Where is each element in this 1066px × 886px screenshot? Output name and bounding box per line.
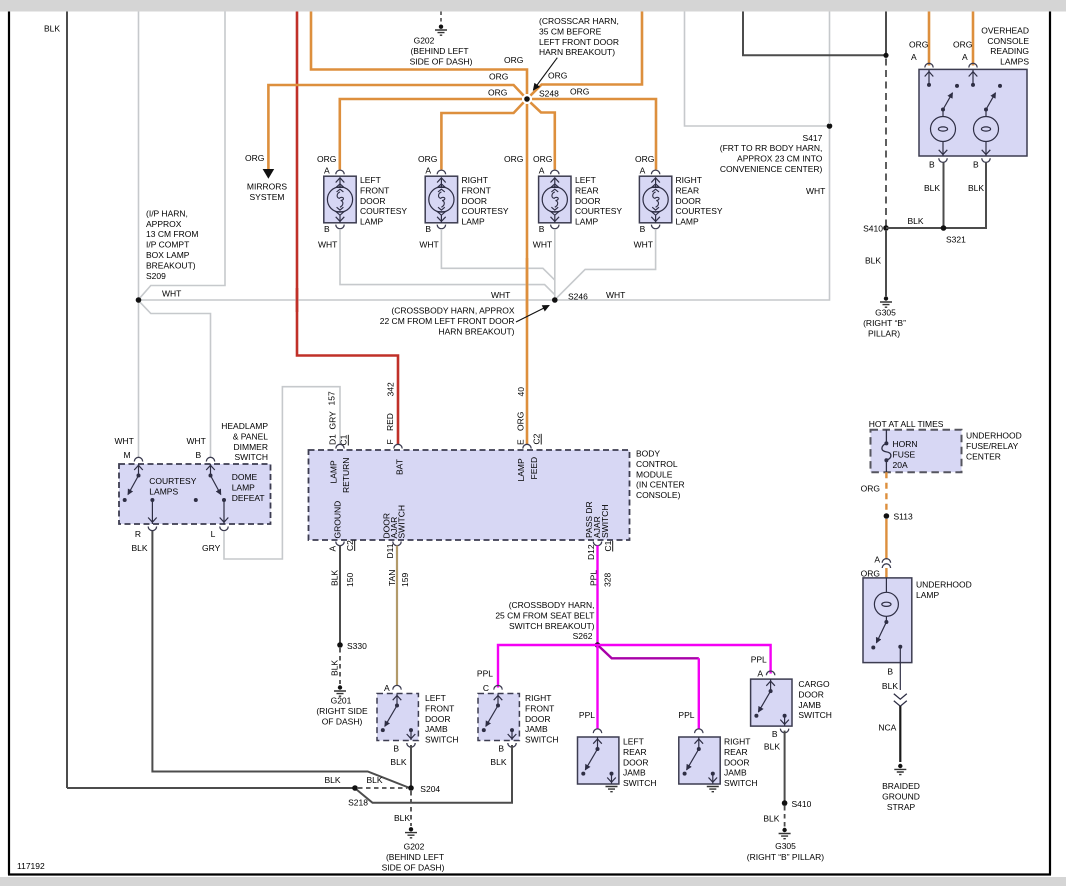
svg-text:DOOR: DOOR bbox=[623, 757, 649, 767]
box OVERHEAD CONSOLE READING LAMPS bbox=[919, 69, 1027, 156]
svg-text:(CROSSBODY HARN, APPROX: (CROSSBODY HARN, APPROX bbox=[391, 306, 514, 316]
svg-text:BLK: BLK bbox=[330, 570, 340, 586]
node junction at x886 y55 bbox=[883, 53, 888, 58]
svg-text:RED: RED bbox=[385, 413, 395, 431]
svg-text:40: 40 bbox=[516, 387, 526, 397]
lamp LEFT FRONT DOOR COURTESY LAMP bbox=[324, 170, 356, 229]
wire WHT LR lamp return into S246 bbox=[554, 229, 556, 300]
svg-text:FEED: FEED bbox=[529, 457, 539, 480]
svg-text:COURTESY: COURTESY bbox=[360, 206, 407, 216]
svg-text:BLK: BLK bbox=[968, 183, 984, 193]
wire BLK right lamp B down to S321 bbox=[886, 163, 986, 229]
svg-text:SWITCH: SWITCH bbox=[798, 710, 832, 720]
connector A inline (double arc) bbox=[882, 559, 890, 568]
svg-text:ORG: ORG bbox=[516, 412, 526, 431]
svg-text:C1: C1 bbox=[603, 540, 613, 551]
wire ORG connector to lamp box bbox=[885, 568, 887, 578]
svg-text:S321: S321 bbox=[946, 235, 966, 245]
svg-text:D11: D11 bbox=[385, 543, 395, 558]
svg-text:(BEHIND LEFT: (BEHIND LEFT bbox=[386, 852, 444, 862]
svg-text:PPL: PPL bbox=[678, 710, 694, 720]
splice S204 bbox=[408, 785, 414, 791]
wire BLK left vertical (top to ground bus) bbox=[66, 12, 68, 789]
connector arc R pin bbox=[148, 527, 156, 531]
svg-text:A: A bbox=[384, 683, 390, 693]
svg-text:(BEHIND LEFT: (BEHIND LEFT bbox=[410, 46, 468, 56]
svg-text:WHT: WHT bbox=[533, 240, 552, 250]
svg-text:DOOR: DOOR bbox=[360, 196, 386, 206]
switch RIGHT FRONT DOOR JAMB SWITCH bbox=[494, 685, 502, 689]
svg-text:JAMB: JAMB bbox=[798, 700, 821, 710]
svg-text:SWITCH: SWITCH bbox=[234, 452, 268, 462]
svg-text:BAT: BAT bbox=[395, 459, 405, 475]
svg-text:G305: G305 bbox=[875, 308, 896, 318]
svg-text:APPROX: APPROX bbox=[146, 219, 182, 229]
box UNDERHOOD FUSE/RELAY CENTER bbox=[871, 430, 962, 472]
svg-text:LAMP: LAMP bbox=[676, 217, 699, 227]
svg-text:13 CM FROM: 13 CM FROM bbox=[146, 229, 198, 239]
wire ORG overhead right lamp feed bbox=[972, 12, 975, 66]
wire WHT bus S209 to S246 bbox=[139, 299, 555, 301]
svg-text:FRONT: FRONT bbox=[360, 185, 389, 195]
svg-text:MIRRORS: MIRRORS bbox=[247, 182, 287, 192]
svg-text:SIDE OF DASH): SIDE OF DASH) bbox=[410, 56, 473, 66]
wire BLK ground bus left to S218 bbox=[67, 787, 353, 789]
connector arc BCM A bbox=[336, 542, 344, 546]
svg-text:JAMB: JAMB bbox=[425, 724, 448, 734]
svg-text:FRONT: FRONT bbox=[425, 703, 454, 713]
connector arc BCM D1 bbox=[336, 444, 344, 448]
svg-text:ORG: ORG bbox=[488, 88, 507, 98]
svg-text:FRONT: FRONT bbox=[462, 185, 491, 195]
wire WHT S417 to top frame bbox=[829, 12, 831, 125]
svg-text:DOOR: DOOR bbox=[425, 714, 451, 724]
svg-text:159: 159 bbox=[400, 573, 410, 587]
ground G305 upper bbox=[884, 296, 888, 300]
top gray strip bbox=[0, 0, 1066, 12]
svg-text:C: C bbox=[483, 683, 489, 693]
svg-text:B: B bbox=[929, 160, 935, 170]
wire BLK RF jamb B to ground bus bbox=[357, 745, 513, 803]
svg-text:WHT: WHT bbox=[419, 240, 438, 250]
svg-text:BLK: BLK bbox=[908, 216, 924, 226]
svg-text:PILLAR): PILLAR) bbox=[868, 328, 900, 338]
svg-text:REAR: REAR bbox=[676, 185, 700, 195]
svg-text:COURTESY: COURTESY bbox=[676, 206, 723, 216]
svg-text:APPROX 23 CM INTO: APPROX 23 CM INTO bbox=[737, 154, 823, 164]
wire BLK dashed S330 to G201 bbox=[339, 648, 341, 684]
svg-text:S209: S209 bbox=[146, 271, 166, 281]
svg-text:HEADLAMP: HEADLAMP bbox=[221, 421, 268, 431]
underhood lamp internals bbox=[871, 578, 902, 690]
svg-text:S218: S218 bbox=[348, 798, 368, 808]
svg-text:G201: G201 bbox=[331, 696, 352, 706]
svg-text:MODULE: MODULE bbox=[636, 469, 673, 479]
svg-text:DEFEAT: DEFEAT bbox=[232, 493, 265, 503]
svg-text:LAMP: LAMP bbox=[360, 217, 383, 227]
svg-text:CENTER: CENTER bbox=[966, 451, 1001, 461]
svg-text:WHT: WHT bbox=[115, 436, 134, 446]
svg-text:D1: D1 bbox=[327, 434, 337, 445]
svg-text:M: M bbox=[124, 450, 131, 460]
wire GRY from L pin to BCM LAMP RETURN bbox=[224, 387, 340, 559]
connector arc right lamp A bbox=[969, 63, 977, 67]
box UNDERHOOD LAMP bbox=[863, 578, 912, 663]
svg-text:ORG: ORG bbox=[861, 568, 880, 578]
svg-text:OF DASH): OF DASH) bbox=[322, 716, 363, 726]
svg-text:WHT: WHT bbox=[187, 436, 206, 446]
svg-text:COURTESY: COURTESY bbox=[575, 206, 622, 216]
svg-text:JAMB: JAMB bbox=[525, 724, 548, 734]
svg-text:S248: S248 bbox=[539, 88, 559, 98]
svg-text:HORN: HORN bbox=[893, 439, 918, 449]
svg-text:LAMP: LAMP bbox=[232, 482, 255, 492]
svg-text:LAMP: LAMP bbox=[462, 217, 485, 227]
svg-text:CONVENIENCE CENTER): CONVENIENCE CENTER) bbox=[720, 164, 823, 174]
wire BLK dashed S204 to G202 lower bbox=[410, 791, 412, 826]
svg-text:LAMPS: LAMPS bbox=[1000, 57, 1029, 67]
wire ORG overhead left lamp feed bbox=[928, 12, 931, 66]
svg-text:RIGHT: RIGHT bbox=[462, 175, 488, 185]
switch RIGHT REAR DOOR JAMB SWITCH bbox=[695, 729, 703, 733]
svg-text:S246: S246 bbox=[568, 291, 588, 301]
svg-text:E: E bbox=[516, 439, 526, 445]
svg-text:JAMB: JAMB bbox=[724, 768, 747, 778]
svg-text:ORG: ORG bbox=[909, 40, 928, 50]
svg-text:PPL: PPL bbox=[477, 669, 493, 679]
wire ORG E branch of S248 to right rear courtesy lamp bbox=[532, 99, 656, 170]
wire BLK dashed x886 down to S410 bbox=[885, 59, 887, 226]
wire ORG SE branch of S248 to left rear courtesy lamp bbox=[530, 102, 554, 169]
svg-text:DIMMER: DIMMER bbox=[234, 442, 268, 452]
reading lamp unit right internals bbox=[969, 70, 1002, 156]
splice S410 upper bbox=[883, 225, 889, 231]
svg-text:STRAP: STRAP bbox=[887, 802, 916, 812]
svg-text:DOOR: DOOR bbox=[724, 757, 750, 767]
svg-text:LEFT: LEFT bbox=[575, 175, 596, 185]
wire ORG N branch of S248 (to top frame) bbox=[311, 12, 527, 95]
svg-text:TAN: TAN bbox=[387, 570, 397, 586]
svg-text:LAMP: LAMP bbox=[516, 458, 526, 481]
svg-text:ORG: ORG bbox=[861, 484, 880, 494]
svg-text:& PANEL: & PANEL bbox=[233, 431, 269, 441]
splice S218 bbox=[352, 785, 358, 791]
svg-text:G202: G202 bbox=[414, 36, 435, 46]
wire ORG S branch of S248 down to BCM LAMP FEED bbox=[526, 104, 529, 444]
svg-text:ORG: ORG bbox=[245, 153, 264, 163]
connector arc L pin bbox=[220, 527, 228, 531]
wire PPL right rear jamb drop bbox=[698, 658, 700, 729]
splice S248 bbox=[524, 96, 530, 102]
connector arc B pin bbox=[206, 457, 214, 461]
svg-text:PPL: PPL bbox=[579, 710, 595, 720]
svg-text:SWITCH: SWITCH bbox=[525, 735, 559, 745]
ground G201 bbox=[338, 685, 342, 689]
svg-text:REAR: REAR bbox=[575, 185, 599, 195]
svg-text:DOOR: DOOR bbox=[575, 196, 601, 206]
svg-text:DOOR: DOOR bbox=[525, 714, 551, 724]
svg-text:NCA: NCA bbox=[878, 723, 896, 733]
svg-text:G202: G202 bbox=[404, 842, 425, 852]
svg-text:S417: S417 bbox=[803, 133, 823, 143]
svg-text:DOOR: DOOR bbox=[798, 689, 824, 699]
svg-text:LEFT FRONT DOOR: LEFT FRONT DOOR bbox=[539, 37, 619, 47]
svg-text:CONSOLE: CONSOLE bbox=[987, 36, 1029, 46]
svg-text:B: B bbox=[324, 224, 330, 234]
svg-text:(RIGHT “B” PILLAR): (RIGHT “B” PILLAR) bbox=[747, 852, 824, 862]
svg-text:BLK: BLK bbox=[763, 814, 779, 824]
svg-text:S204: S204 bbox=[420, 784, 440, 794]
svg-text:CONSOLE): CONSOLE) bbox=[636, 490, 681, 500]
svg-text:B: B bbox=[196, 450, 202, 460]
svg-text:A: A bbox=[640, 166, 646, 176]
svg-text:WHT: WHT bbox=[318, 240, 337, 250]
svg-text:BREAKOUT): BREAKOUT) bbox=[146, 260, 196, 270]
svg-text:S262: S262 bbox=[573, 631, 593, 641]
svg-text:GRY: GRY bbox=[327, 411, 337, 430]
svg-text:OVERHEAD: OVERHEAD bbox=[981, 25, 1029, 35]
svg-text:342: 342 bbox=[386, 382, 396, 396]
svg-text:LAMPS: LAMPS bbox=[149, 486, 178, 496]
svg-text:RIGHT: RIGHT bbox=[724, 737, 750, 747]
svg-text:B: B bbox=[393, 744, 399, 754]
svg-text:A: A bbox=[539, 166, 545, 176]
svg-text:READING: READING bbox=[990, 46, 1029, 56]
svg-text:DOME: DOME bbox=[232, 472, 258, 482]
svg-text:22 CM FROM LEFT FRONT DOOR: 22 CM FROM LEFT FRONT DOOR bbox=[380, 316, 515, 326]
wire BLK BCM ground to S330 bbox=[339, 546, 341, 644]
ground G305 lower bbox=[782, 828, 786, 832]
svg-text:REAR: REAR bbox=[724, 747, 748, 757]
svg-text:(IN CENTER: (IN CENTER bbox=[636, 480, 685, 490]
wire ORG NE branch of S248 to top frame bbox=[530, 12, 642, 96]
wire ORG dashed fuse to S113 bbox=[885, 472, 887, 513]
svg-text:LEFT: LEFT bbox=[425, 693, 446, 703]
svg-text:BLK: BLK bbox=[882, 681, 898, 691]
arrow crossbody note to S246 bbox=[516, 306, 549, 323]
connector NCA chevrons bbox=[894, 694, 907, 707]
svg-text:LAMP: LAMP bbox=[329, 460, 339, 483]
lamp RIGHT REAR DOOR COURTESY LAMP bbox=[639, 170, 671, 229]
svg-text:HARN BREAKOUT): HARN BREAKOUT) bbox=[539, 47, 615, 57]
svg-text:ORG: ORG bbox=[570, 87, 589, 97]
svg-text:117192: 117192 bbox=[17, 861, 45, 871]
svg-text:SWITCH BREAKOUT): SWITCH BREAKOUT) bbox=[509, 621, 595, 631]
svg-text:ORG: ORG bbox=[504, 55, 523, 65]
svg-text:ORG: ORG bbox=[504, 154, 523, 164]
wire BLK top-right corner path bbox=[743, 12, 884, 56]
svg-text:(CROSSCAR HARN,: (CROSSCAR HARN, bbox=[539, 16, 619, 26]
ground braided ground strap bbox=[898, 764, 902, 768]
svg-text:BODY: BODY bbox=[636, 449, 660, 459]
wire BLK to braided ground strap bbox=[899, 706, 901, 762]
svg-text:S410: S410 bbox=[792, 799, 812, 809]
wire WHT riser x685 to S417 bbox=[685, 12, 828, 127]
svg-text:ORG: ORG bbox=[418, 154, 437, 164]
connector arc BCM D12 bbox=[593, 542, 601, 546]
svg-text:BLK: BLK bbox=[764, 741, 780, 751]
wire BLK left lamp B down bbox=[943, 163, 945, 229]
svg-text:GROUND: GROUND bbox=[882, 791, 920, 801]
wire BLK short vertical x886 top bbox=[885, 12, 887, 56]
ground G202 lower bbox=[409, 827, 413, 831]
wire WHT S209 to headlamp switch B pin bbox=[140, 302, 211, 458]
svg-text:DOOR: DOOR bbox=[676, 196, 702, 206]
svg-text:JAMB: JAMB bbox=[623, 768, 646, 778]
svg-text:CONTROL: CONTROL bbox=[636, 459, 678, 469]
svg-text:SYSTEM: SYSTEM bbox=[250, 192, 285, 202]
svg-text:RETURN: RETURN bbox=[341, 458, 351, 493]
svg-text:UNDERHOOD: UNDERHOOD bbox=[966, 431, 1022, 441]
svg-text:FRONT: FRONT bbox=[525, 703, 554, 713]
wire BLK S410 to G305 bbox=[885, 230, 887, 296]
svg-text:S410: S410 bbox=[863, 224, 883, 234]
box BODY CONTROL MODULE bbox=[309, 450, 630, 540]
fuse HORN FUSE 20A bbox=[882, 430, 891, 472]
svg-text:ORG: ORG bbox=[635, 154, 654, 164]
svg-text:BLK: BLK bbox=[865, 256, 881, 266]
svg-text:BOX LAMP: BOX LAMP bbox=[146, 250, 190, 260]
svg-text:HOT AT ALL TIMES: HOT AT ALL TIMES bbox=[869, 419, 944, 429]
wire RED 342 from top to BCM BAT bbox=[297, 12, 398, 445]
svg-text:157: 157 bbox=[327, 391, 337, 405]
wire RED overlay at WHT bus crossing bbox=[296, 288, 299, 312]
svg-text:S113: S113 bbox=[894, 512, 913, 522]
svg-text:BLK: BLK bbox=[490, 757, 506, 767]
svg-text:C2: C2 bbox=[532, 433, 542, 444]
svg-text:SWITCH: SWITCH bbox=[600, 504, 610, 538]
svg-text:G305: G305 bbox=[775, 841, 796, 851]
svg-text:DOOR: DOOR bbox=[462, 196, 488, 206]
svg-text:HARN BREAKOUT): HARN BREAKOUT) bbox=[438, 326, 514, 336]
svg-text:A: A bbox=[324, 166, 330, 176]
switch LEFT REAR DOOR JAMB SWITCH bbox=[593, 729, 601, 733]
svg-text:LEFT: LEFT bbox=[623, 737, 644, 747]
svg-text:REAR: REAR bbox=[623, 747, 647, 757]
wire BLK LF jamb B to S204 bbox=[410, 745, 412, 786]
svg-text:BLK: BLK bbox=[390, 757, 406, 767]
svg-text:(RIGHT “B”: (RIGHT “B” bbox=[863, 318, 906, 328]
svg-text:I/P COMPT: I/P COMPT bbox=[146, 240, 189, 250]
wire TAN BCM D11 to left front jamb switch bbox=[396, 546, 398, 687]
wire BLK cargo B to S410 bbox=[784, 731, 786, 801]
wire BLK dashed S410 to G305 lower bbox=[784, 806, 786, 827]
connector arc M pin bbox=[134, 457, 142, 461]
svg-text:COURTESY: COURTESY bbox=[149, 476, 196, 486]
svg-text:SWITCH: SWITCH bbox=[397, 505, 407, 539]
svg-text:WHT: WHT bbox=[491, 290, 510, 300]
svg-text:A: A bbox=[328, 546, 338, 552]
wire ORG NW branch of S248 to MIRRORS SYSTEM arrow bbox=[268, 85, 523, 169]
switch dome lamp defeat internals bbox=[194, 464, 229, 524]
svg-text:(FRT TO RR BODY HARN,: (FRT TO RR BODY HARN, bbox=[720, 143, 823, 153]
svg-text:B: B bbox=[539, 224, 545, 234]
svg-text:C2: C2 bbox=[345, 540, 355, 551]
svg-text:WHT: WHT bbox=[606, 290, 625, 300]
svg-text:UNDERHOOD: UNDERHOOD bbox=[916, 580, 972, 590]
svg-text:B: B bbox=[973, 160, 979, 170]
svg-text:A: A bbox=[757, 669, 763, 679]
arrow mirrors system bbox=[263, 169, 275, 179]
ground G202 top bbox=[440, 12, 442, 25]
svg-text:35 CM BEFORE: 35 CM BEFORE bbox=[539, 26, 602, 36]
switch courtesy lamps internals bbox=[123, 464, 157, 524]
svg-text:SWITCH: SWITCH bbox=[623, 778, 657, 788]
splice S262 bbox=[595, 642, 601, 648]
svg-text:L: L bbox=[211, 529, 216, 539]
splice S246 bbox=[552, 297, 558, 303]
svg-text:20A: 20A bbox=[893, 460, 908, 470]
svg-text:BLK: BLK bbox=[330, 660, 340, 676]
lamp LEFT REAR DOOR COURTESY LAMP bbox=[539, 170, 571, 229]
connector arc right lamp B bbox=[982, 158, 990, 162]
svg-text:ORG: ORG bbox=[317, 154, 336, 164]
svg-text:A: A bbox=[425, 166, 431, 176]
svg-text:WHT: WHT bbox=[634, 240, 653, 250]
wire WHT LF lamp return to S246 bbox=[340, 229, 555, 295]
svg-text:B: B bbox=[425, 224, 431, 234]
splice S113 bbox=[884, 513, 890, 519]
svg-text:LAMP: LAMP bbox=[916, 590, 939, 600]
splice S209 bbox=[136, 297, 142, 303]
svg-text:(CROSSBODY HARN,: (CROSSBODY HARN, bbox=[509, 600, 595, 610]
connector arc BCM F bbox=[394, 444, 402, 448]
reading lamp unit left internals bbox=[925, 70, 959, 156]
splice S410 lower bbox=[782, 800, 788, 806]
wire PPL S262 to right front jamb C bbox=[498, 645, 598, 688]
svg-text:R: R bbox=[135, 529, 141, 539]
splice S417 bbox=[827, 123, 833, 129]
svg-text:LAMP: LAMP bbox=[575, 217, 598, 227]
bottom gray strip bbox=[0, 877, 1066, 886]
connector arc left lamp A bbox=[925, 63, 933, 67]
svg-text:FUSE: FUSE bbox=[893, 449, 916, 459]
wire BLK dashed S218 to S204 bbox=[358, 787, 408, 789]
wire WHT vertical x225 to S209 (headlamp B feed riser) bbox=[140, 12, 225, 298]
svg-text:150: 150 bbox=[345, 573, 355, 587]
svg-text:A: A bbox=[911, 52, 917, 62]
svg-text:ORG: ORG bbox=[533, 154, 552, 164]
svg-text:FUSE/RELAY: FUSE/RELAY bbox=[966, 441, 1019, 451]
svg-text:SWITCH: SWITCH bbox=[425, 735, 459, 745]
wire WHT RR lamp return to S246 bbox=[555, 229, 656, 300]
svg-text:S330: S330 bbox=[347, 641, 367, 651]
svg-text:B: B bbox=[772, 729, 778, 739]
svg-text:SWITCH: SWITCH bbox=[724, 778, 758, 788]
svg-text:COURTESY: COURTESY bbox=[462, 206, 509, 216]
svg-text:(I/P HARN,: (I/P HARN, bbox=[146, 208, 188, 218]
svg-text:CARGO: CARGO bbox=[798, 679, 830, 689]
wire PPL S262 down to left rear jamb bbox=[596, 645, 598, 730]
svg-text:RIGHT: RIGHT bbox=[676, 175, 702, 185]
svg-text:BLK: BLK bbox=[367, 775, 383, 785]
svg-text:328: 328 bbox=[603, 573, 613, 587]
svg-text:RIGHT: RIGHT bbox=[525, 693, 551, 703]
svg-text:SIDE OF DASH): SIDE OF DASH) bbox=[382, 862, 445, 872]
svg-text:GROUND: GROUND bbox=[333, 501, 343, 539]
svg-text:ORG: ORG bbox=[953, 40, 972, 50]
svg-text:A: A bbox=[874, 555, 880, 565]
svg-text:BRAIDED: BRAIDED bbox=[882, 781, 920, 791]
svg-text:B: B bbox=[887, 667, 893, 677]
svg-text:D12: D12 bbox=[586, 544, 596, 560]
wire WHT bus S246 to S417 riser bbox=[555, 128, 830, 301]
wire PPL S262 to cargo door jamb A bbox=[598, 645, 771, 674]
connector arc BCM E bbox=[523, 444, 531, 448]
svg-text:WHT: WHT bbox=[162, 289, 181, 299]
box HEADLAMP AND PANEL DIMMER SWITCH bbox=[119, 464, 271, 524]
connector arc left lamp B bbox=[939, 158, 947, 162]
